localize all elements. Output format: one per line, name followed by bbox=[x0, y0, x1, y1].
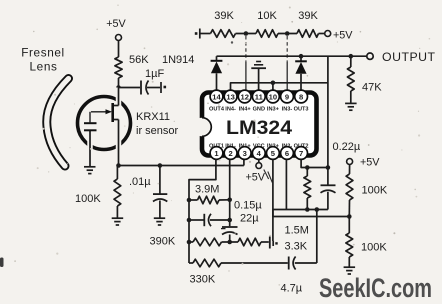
wire source (FET down to node) with circle gap bbox=[113, 120, 119, 166]
resistor 56K bbox=[115, 54, 149, 88]
node rail dots bbox=[187, 198, 232, 245]
capacitor 0.15µ bbox=[189, 200, 262, 227]
label 1N914 bbox=[162, 54, 194, 66]
svg-text:1µF: 1µF bbox=[145, 68, 164, 80]
svg-text:6: 6 bbox=[285, 149, 289, 158]
resistor 39K (right) bbox=[297, 10, 325, 37]
svg-text:100K: 100K bbox=[362, 185, 388, 197]
pyroelectric element plates bbox=[84, 112, 97, 131]
resistor 100K (lower) bbox=[346, 217, 387, 267]
Fresnel lens crescent bbox=[47, 79, 69, 167]
ground (.01µ) bbox=[154, 218, 165, 225]
wire divider B to IN3- (dashed) bbox=[286, 36, 288, 90]
node drain junction bbox=[116, 85, 121, 90]
svg-text:0.15µ: 0.15µ bbox=[234, 200, 262, 212]
svg-text:11: 11 bbox=[255, 92, 264, 101]
wire OUTPUT node down to 0.22µ rail bbox=[327, 56, 329, 167]
resistor 10K bbox=[256, 10, 297, 37]
+5V supply (VCC pin 4) bbox=[246, 160, 273, 184]
capacitor (series to pin 5) bbox=[270, 237, 278, 249]
ground (100K) bbox=[112, 218, 124, 225]
svg-text:OUT4: OUT4 bbox=[209, 107, 225, 113]
node divider B bbox=[285, 31, 290, 36]
capacitor 4.7µ bbox=[281, 257, 317, 295]
svg-text:330K: 330K bbox=[190, 274, 216, 286]
sensor KRX11 body circle bbox=[78, 97, 131, 150]
OUTPUT terminal bbox=[367, 50, 436, 64]
svg-text:ir sensor: ir sensor bbox=[136, 125, 179, 137]
wire drain (56K to FET) with circle gap bbox=[113, 88, 119, 106]
svg-text:3: 3 bbox=[243, 149, 247, 158]
resistor 390K bbox=[150, 236, 230, 248]
+5V supply (divider right) bbox=[347, 157, 381, 169]
ground (100K divider) bbox=[344, 267, 356, 274]
resistor 100K (upper) bbox=[346, 165, 388, 217]
svg-text:IN4+: IN4+ bbox=[239, 107, 252, 113]
svg-text:2: 2 bbox=[228, 149, 232, 158]
wire OUT1 to feedback rail bbox=[189, 160, 216, 264]
op-amp U1 LM324 body bbox=[193, 93, 317, 156]
SeekIC watermark bbox=[319, 273, 432, 303]
transistor FET channel bar bbox=[111, 103, 114, 122]
svg-text:8: 8 bbox=[299, 92, 303, 101]
svg-text:3.3K: 3.3K bbox=[285, 241, 308, 253]
wire output bus bbox=[217, 55, 367, 57]
U1 bottom pins 1-7 with labels bbox=[209, 144, 309, 160]
wire OUT2 (pin 7) rail bbox=[301, 160, 330, 170]
scan smudge left edge bbox=[0, 258, 4, 268]
scan speck near 10K bbox=[231, 41, 233, 43]
svg-text:1.5M: 1.5M bbox=[285, 225, 309, 237]
FET gate with arrow bbox=[91, 109, 112, 114]
svg-text:Lens: Lens bbox=[30, 60, 58, 74]
wire pyro ground lead with circle gap bbox=[87, 131, 93, 167]
wire IN2- (pin 6) down bbox=[285, 160, 287, 210]
svg-text:OUTPUT: OUTPUT bbox=[382, 50, 436, 64]
svg-text:10: 10 bbox=[269, 92, 277, 101]
svg-text:+5V: +5V bbox=[246, 172, 266, 184]
wire sensor node to IN1+ (pin 3) bbox=[116, 160, 244, 168]
label Fresnel Lens text bbox=[21, 46, 65, 74]
ground (pyro element) bbox=[84, 167, 96, 174]
svg-text:3.9M: 3.9M bbox=[195, 184, 219, 196]
wire bias rail to divider bbox=[273, 210, 352, 219]
svg-text:+5V: +5V bbox=[333, 30, 353, 42]
resistor 100K (sensor bias) bbox=[75, 166, 121, 218]
resistor 39K (left) bbox=[211, 10, 257, 37]
svg-text:12: 12 bbox=[240, 92, 248, 101]
svg-text:4.7µ: 4.7µ bbox=[281, 283, 303, 295]
svg-text:SeekIC.com: SeekIC.com bbox=[319, 273, 432, 303]
wire 4.7µ riser to IN2- rail bbox=[316, 210, 318, 264]
svg-text:7: 7 bbox=[299, 149, 303, 158]
svg-text:OUT3: OUT3 bbox=[294, 107, 309, 113]
svg-text:+5V: +5V bbox=[106, 18, 126, 30]
svg-text:100K: 100K bbox=[361, 242, 387, 254]
svg-text:10K: 10K bbox=[257, 10, 277, 22]
svg-text:13: 13 bbox=[226, 92, 234, 101]
wire IN2- bottom rail bbox=[273, 207, 328, 212]
svg-text:GND: GND bbox=[253, 107, 265, 113]
svg-text:IN4-: IN4- bbox=[225, 107, 236, 113]
svg-text:56K: 56K bbox=[129, 54, 149, 66]
resistor 3.9M bbox=[189, 184, 230, 204]
resistor 1.5M feedback (vertical) bbox=[304, 168, 311, 210]
svg-text:14: 14 bbox=[212, 92, 221, 101]
wire break symbol (chain input) bbox=[195, 29, 211, 39]
svg-text:.01µ: .01µ bbox=[129, 176, 151, 188]
ground (47K) bbox=[345, 103, 357, 110]
U1 top pins 14-8 with labels bbox=[209, 90, 309, 112]
diode D2 1N914 (OUT3) bbox=[295, 54, 307, 90]
svg-text:100K: 100K bbox=[75, 193, 101, 205]
capacitor 22µ bbox=[221, 213, 259, 235]
resistor 47K bbox=[347, 54, 382, 103]
wire divider A to IN4+ (dashed) bbox=[245, 36, 247, 90]
wire IN2+ (pin 5) down bbox=[272, 160, 274, 242]
+5V supply (sensor) bbox=[106, 18, 126, 57]
svg-text:KRX11: KRX11 bbox=[136, 111, 170, 123]
svg-text:47K: 47K bbox=[362, 82, 382, 94]
svg-text:22µ: 22µ bbox=[240, 213, 259, 225]
node divider A bbox=[244, 31, 249, 36]
capacitor 1µF bbox=[119, 68, 167, 95]
wire IN1- rail (pin 2) bbox=[229, 160, 231, 243]
resistor 1.5M (series) bbox=[230, 225, 309, 253]
capacitor 0.22µ bbox=[321, 141, 361, 210]
svg-text:9: 9 bbox=[285, 92, 289, 101]
svg-text:IN3+: IN3+ bbox=[267, 107, 280, 113]
svg-text:390K: 390K bbox=[150, 236, 176, 248]
svg-text:LM324: LM324 bbox=[226, 117, 292, 139]
+5V supply (divider) bbox=[325, 30, 354, 42]
svg-text:IN3-: IN3- bbox=[282, 107, 293, 113]
svg-text:Fresnel: Fresnel bbox=[21, 46, 65, 60]
label KRX11 ir sensor bbox=[136, 111, 179, 137]
resistor 330K bbox=[189, 259, 288, 285]
ground (GND pin 11, inverted) bbox=[251, 62, 266, 91]
capacitor .01µ bbox=[129, 166, 167, 218]
diode D1 1N914 (OUT4) bbox=[211, 56, 223, 90]
svg-text:+5V: +5V bbox=[360, 157, 380, 169]
wire IN4- / IN3+ coupling bus bbox=[231, 81, 328, 91]
svg-text:39K: 39K bbox=[298, 10, 318, 22]
svg-text:39K: 39K bbox=[214, 10, 234, 22]
